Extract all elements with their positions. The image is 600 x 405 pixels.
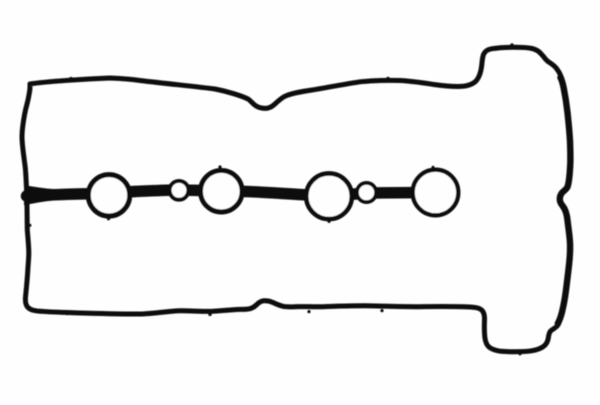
spark plug hole ring 3 bbox=[306, 173, 352, 219]
mold nubs bbox=[28, 43, 521, 355]
band-to-left-edge fillet bbox=[24, 185, 54, 205]
spark plug hole ring 2 bbox=[201, 170, 243, 212]
outer gasket contour bbox=[22, 47, 570, 351]
bolt hole small 1 bbox=[170, 181, 189, 200]
right edge thickening bbox=[558, 78, 571, 324]
center band bbox=[27, 190, 436, 196]
spark plug hole ring 1 bbox=[88, 175, 129, 216]
spark plug hole ring 4 bbox=[413, 170, 459, 216]
bolt hole small 2 bbox=[357, 183, 376, 202]
